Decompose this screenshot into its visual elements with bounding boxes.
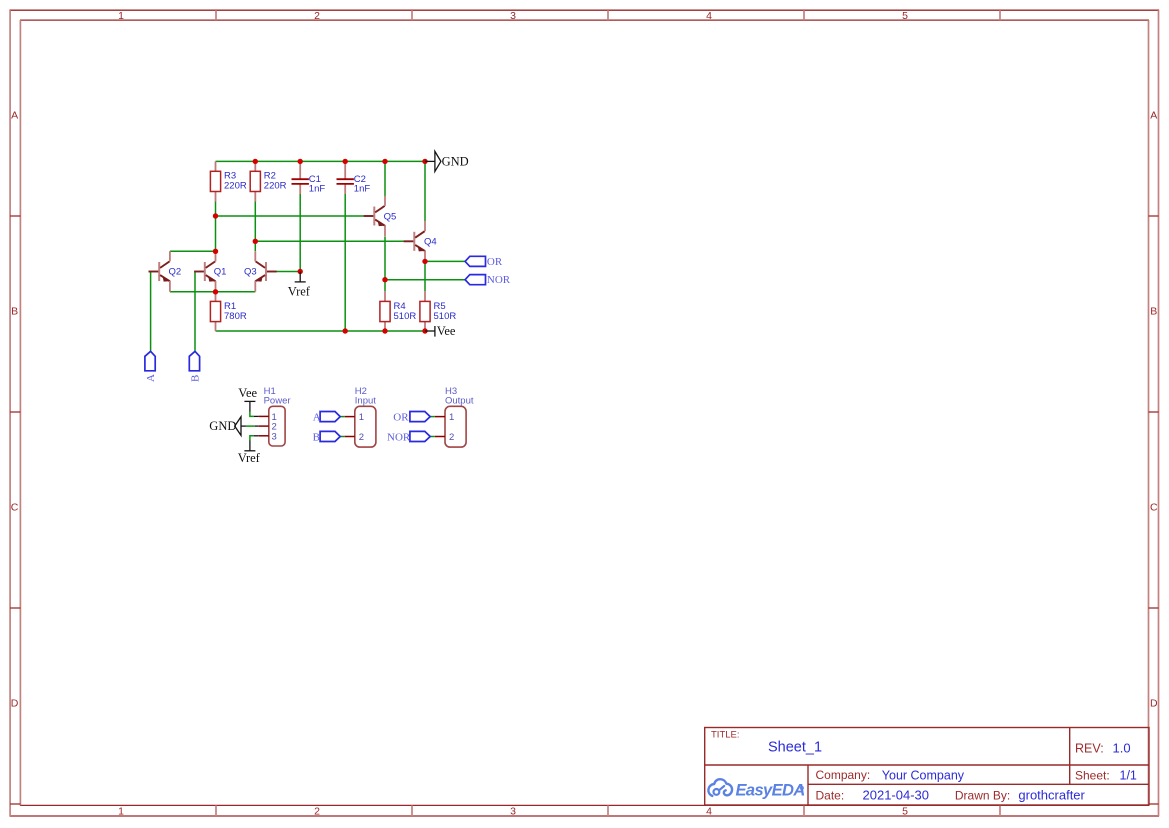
- svg-text:2: 2: [449, 432, 454, 443]
- svg-text:C: C: [11, 501, 19, 513]
- svg-text:B: B: [190, 375, 202, 382]
- title block: [705, 728, 1149, 806]
- svg-text:2: 2: [359, 432, 364, 443]
- junction node C1 top: [298, 159, 303, 164]
- wire H1 pin3 to Vref: [250, 436, 254, 441]
- svg-text:5: 5: [902, 806, 908, 818]
- svg-text:Q5: Q5: [384, 211, 397, 222]
- svg-text:OR: OR: [487, 256, 503, 268]
- wire R3 column upper: [215, 201, 217, 251]
- svg-text:Date:: Date:: [816, 789, 845, 803]
- power flag GND at H1: [209, 417, 246, 436]
- junction node C2 bottom rail: [343, 328, 348, 333]
- svg-text:1/1: 1/1: [1120, 769, 1137, 783]
- junction node GND rail end: [422, 159, 427, 164]
- svg-text:Power: Power: [264, 395, 291, 406]
- netport B at H2: [313, 431, 341, 443]
- wire C1 to Q3 base node: [299, 194, 301, 272]
- svg-text:Sheet_1: Sheet_1: [768, 740, 822, 756]
- wire Q4 collector to rail: [424, 161, 426, 221]
- wire H1 pin2 to GND: [246, 425, 255, 427]
- transistor Q1: [194, 251, 226, 291]
- junction node OR: [422, 259, 427, 264]
- connector H2: [345, 386, 377, 447]
- svg-text:REV:: REV:: [1075, 742, 1104, 756]
- wire H2 pin1: [340, 416, 345, 418]
- svg-text:Sheet:: Sheet:: [1075, 769, 1110, 783]
- svg-text:2: 2: [314, 806, 320, 818]
- junction node NOR: [382, 277, 387, 282]
- svg-text:Drawn By:: Drawn By:: [955, 789, 1010, 803]
- svg-text:A: A: [1150, 109, 1157, 121]
- svg-text:1: 1: [118, 10, 124, 22]
- svg-text:NOR: NOR: [387, 432, 411, 444]
- netport NOR: [465, 274, 511, 286]
- svg-text:grothcrafter: grothcrafter: [1018, 788, 1085, 803]
- svg-text:2021-04-30: 2021-04-30: [863, 788, 930, 803]
- svg-text:A: A: [11, 109, 18, 121]
- wire Q4 emitter to R5: [424, 261, 426, 291]
- wire R2 column lower: [254, 201, 256, 251]
- power flag Vee at H1: [238, 386, 257, 411]
- svg-text:780R: 780R: [224, 311, 247, 322]
- transistor Q2: [149, 251, 182, 291]
- svg-text:Output: Output: [445, 395, 474, 406]
- svg-text:1nF: 1nF: [309, 184, 326, 195]
- resistor R2: [250, 161, 286, 201]
- row labels right: [1150, 109, 1158, 709]
- junction node R4 bottom rail: [382, 328, 387, 333]
- svg-text:GND: GND: [209, 419, 236, 433]
- svg-text:510R: 510R: [434, 311, 457, 322]
- capacitor C1: [292, 161, 326, 194]
- svg-text:D: D: [11, 697, 19, 709]
- capacitor C2: [337, 161, 371, 194]
- wire H3 pin1: [430, 416, 435, 418]
- junction node Q5 base branch: [213, 213, 218, 218]
- netport A at H2: [313, 412, 340, 424]
- svg-text:Company:: Company:: [816, 768, 871, 782]
- svg-text:Your Company: Your Company: [882, 768, 965, 782]
- netport NOR at H3: [387, 431, 430, 443]
- wire Q5 emitter to R4: [384, 237, 386, 292]
- svg-text:B: B: [11, 305, 18, 317]
- column ticks top: [216, 10, 1000, 20]
- svg-text:A: A: [145, 374, 157, 382]
- svg-text:3: 3: [272, 431, 277, 442]
- wire bottom rail Vee net: [216, 330, 426, 332]
- svg-text:TITLE:: TITLE:: [711, 730, 740, 741]
- wire Q4 base branch: [255, 240, 403, 242]
- transistor Q4: [404, 221, 437, 261]
- svg-text:NOR: NOR: [487, 274, 511, 286]
- svg-text:3: 3: [510, 806, 516, 818]
- resistor R3: [210, 161, 246, 201]
- power flag Vref: [288, 272, 311, 299]
- junction node Q1 collector: [213, 249, 218, 254]
- power flag GND top: [425, 151, 469, 171]
- wire Q5 base branch: [216, 215, 364, 217]
- svg-text:510R: 510R: [394, 311, 417, 322]
- junction node Q3 base / Vref: [298, 269, 303, 274]
- svg-text:1: 1: [359, 412, 364, 423]
- junction node C2 top: [343, 159, 348, 164]
- svg-text:1.0: 1.0: [1113, 741, 1131, 756]
- resistor R1: [210, 292, 246, 331]
- svg-text:Vref: Vref: [238, 451, 261, 465]
- svg-text:1: 1: [118, 806, 124, 818]
- svg-text:5: 5: [902, 10, 908, 22]
- power flag Vref at H1: [238, 441, 261, 465]
- transistor Q5: [364, 196, 397, 236]
- wire OR branch: [425, 260, 465, 262]
- svg-text:D: D: [1150, 697, 1158, 709]
- svg-text:A: A: [313, 412, 321, 424]
- wire top rail GND net: [216, 160, 426, 162]
- svg-text:2: 2: [314, 10, 320, 22]
- row ticks left: [10, 216, 20, 804]
- resistor R5: [420, 291, 456, 331]
- wire H1 pin1 to Vee: [250, 411, 254, 416]
- svg-text:EasyEDA: EasyEDA: [736, 782, 805, 800]
- junction node Q4 base branch: [253, 239, 258, 244]
- wire H3 pin2: [430, 436, 435, 438]
- power flag Vee bottom rail: [425, 324, 456, 338]
- svg-text:Vee: Vee: [437, 324, 456, 338]
- svg-text:Q1: Q1: [214, 267, 227, 278]
- junction node R2 top: [253, 159, 258, 164]
- svg-text:3: 3: [510, 10, 516, 22]
- svg-text:4: 4: [706, 806, 712, 818]
- svg-text:Q3: Q3: [244, 267, 257, 278]
- wire input B vertical: [194, 272, 196, 351]
- wire Q2 collector to node: [170, 250, 216, 252]
- svg-text:1nF: 1nF: [354, 184, 371, 195]
- row labels left: [11, 109, 19, 709]
- junction node R5 bottom rail: [422, 328, 427, 333]
- svg-text:Q2: Q2: [169, 267, 182, 278]
- svg-text:C: C: [1150, 501, 1158, 513]
- transistor Q3: [244, 251, 277, 291]
- netport OR: [465, 256, 503, 268]
- wire Q3 base link: [277, 271, 301, 273]
- svg-text:Vee: Vee: [238, 386, 257, 400]
- junction node Q5 collector top: [382, 159, 387, 164]
- svg-text:220R: 220R: [264, 181, 287, 192]
- netport OR at H3: [393, 412, 430, 424]
- wire emitter bus Q2-Q1-Q3: [170, 291, 255, 293]
- svg-text:GND: GND: [442, 155, 469, 169]
- wire NOR branch: [385, 279, 465, 281]
- svg-text:Input: Input: [355, 395, 376, 406]
- svg-text:Q4: Q4: [424, 237, 437, 248]
- wire C2 column to bottom rail: [344, 194, 346, 331]
- wire input A vertical: [150, 272, 152, 351]
- row ticks right: [1149, 216, 1159, 804]
- svg-text:4: 4: [706, 10, 712, 22]
- svg-text:Vref: Vref: [288, 285, 311, 299]
- column labels bottom: [118, 806, 908, 818]
- svg-text:B: B: [313, 432, 320, 444]
- column ticks bottom: [216, 805, 1000, 816]
- svg-text:B: B: [1150, 305, 1157, 317]
- svg-text:OR: OR: [393, 412, 409, 424]
- junction node emitters R1: [213, 289, 218, 294]
- column labels top: [118, 10, 908, 22]
- connector H3: [435, 386, 474, 447]
- connector H1: [259, 386, 291, 446]
- wire Q5 collector to rail: [384, 161, 386, 196]
- netport B: [189, 351, 201, 382]
- netport A: [145, 351, 157, 382]
- svg-text:1: 1: [449, 412, 454, 423]
- wire H2 pin2: [340, 436, 345, 438]
- svg-text:220R: 220R: [224, 181, 247, 192]
- EasyEDA logo: [708, 779, 804, 800]
- resistor R4: [380, 291, 416, 331]
